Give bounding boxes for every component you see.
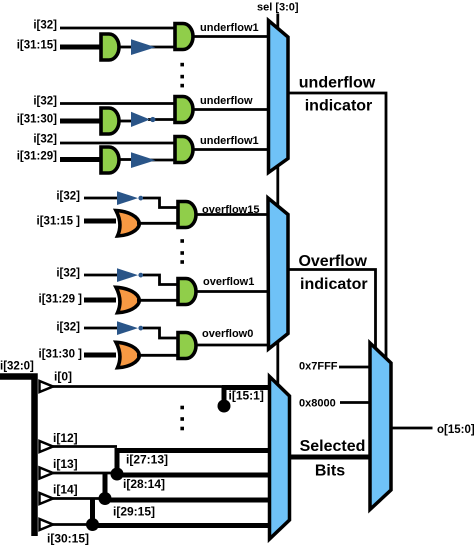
wire i[28:14] bus — [117, 473, 271, 478]
wire i[13] — [53, 472, 113, 475]
wire i[31:15] bus g1 — [60, 45, 103, 50]
wire i[31:30] bus g2 — [60, 119, 103, 124]
wire inverter-to-and g4 — [143, 198, 178, 208]
svg-text:underflow: underflow — [299, 75, 376, 92]
wire i[31:30] bus g6 — [84, 353, 116, 358]
wire i[32] g3 — [60, 142, 177, 145]
wire overflow0 out g6 — [196, 344, 269, 347]
and gate U1a — [101, 34, 119, 60]
svg-text:i[32:0]: i[32:0] — [0, 361, 34, 373]
wire i[30:15] bus — [92, 523, 271, 528]
svg-text:i[15:1]: i[15:1] — [229, 389, 264, 403]
buffer B3 — [131, 152, 156, 168]
svg-text:i[30:15]: i[30:15] — [47, 532, 89, 545]
wire vertical i[13]-to-junction2 — [103, 474, 108, 499]
junction dot 3 — [86, 518, 99, 531]
wire i[31:15] bus g4 — [84, 219, 116, 224]
wire vertical i[27:13]-to-junction1 — [115, 449, 120, 475]
mux U7 underflow — [269, 21, 289, 173]
svg-text:i[31:30]: i[31:30] — [17, 114, 57, 126]
wire stub to junction i[15:1] — [222, 387, 227, 402]
junction dot 2 — [99, 492, 112, 505]
wire i[30:15] thin — [53, 523, 90, 526]
wire i[14] — [53, 497, 101, 500]
and gate U3b — [175, 137, 193, 163]
wire i[29:15] bus — [104, 498, 271, 503]
svg-text:sel [3:0]: sel [3:0] — [257, 2, 299, 14]
wire i[15:1] bus — [222, 385, 271, 390]
wire buffer-to-and1b g1 — [150, 46, 176, 49]
wire i[32] g1 — [60, 27, 177, 30]
ellipsis dots overflow — [180, 239, 184, 264]
tap i[13] — [40, 468, 54, 479]
svg-text:underflow: underflow — [200, 95, 253, 107]
wire inverter-to-and g5 — [143, 275, 178, 285]
wire buffer-to-and2b g2 — [148, 118, 176, 121]
wire and2a-to-buffer g2 — [118, 120, 134, 123]
wire i[32:0] main bus — [0, 377, 35, 537]
svg-text:underflow1: underflow1 — [200, 135, 259, 147]
wire i[31:29] bus g3 — [60, 157, 103, 162]
svg-text:underflow1: underflow1 — [200, 22, 259, 34]
svg-text:i[32]: i[32] — [33, 96, 57, 108]
and gate U1b — [175, 24, 193, 50]
wire sel mux1-to-mux2 — [276, 162, 279, 206]
svg-text:i[28:14]: i[28:14] — [123, 477, 165, 491]
tap i[30:15] — [40, 519, 54, 530]
svg-text:i[27:13]: i[27:13] — [126, 453, 168, 467]
svg-text:0x8000: 0x8000 — [299, 397, 336, 409]
wire i[32] g6 — [84, 327, 120, 330]
wire underflow1 out g1 — [193, 35, 270, 38]
svg-text:indicator: indicator — [300, 276, 368, 293]
buffer B2 with bubble — [131, 112, 150, 127]
wire i[27:13] bus — [115, 448, 272, 453]
wire 0x8000 — [340, 401, 371, 404]
svg-text:i[31:29 ]: i[31:29 ] — [39, 294, 83, 306]
svg-text:i[31:15 ]: i[31:15 ] — [37, 216, 81, 228]
junction dot i[15:1] — [218, 400, 231, 413]
wire overflow-indicator — [288, 270, 376, 350]
inverter N6 — [117, 321, 138, 335]
tap i[12] — [40, 441, 54, 452]
ellipsis dots underflow — [180, 63, 184, 88]
svg-text:Selected: Selected — [300, 438, 366, 455]
svg-text:indicator: indicator — [305, 98, 373, 115]
svg-text:overflow0: overflow0 — [202, 328, 253, 340]
svg-text:i[14]: i[14] — [53, 483, 78, 497]
svg-text:i[0]: i[0] — [54, 370, 72, 384]
svg-text:Overflow: Overflow — [298, 253, 367, 270]
wire or-to-and g5 — [137, 299, 178, 302]
and gate U2b — [175, 97, 193, 123]
inverter N4 — [117, 191, 138, 205]
tap i[14] — [40, 493, 54, 504]
junction dot 1 — [111, 468, 124, 481]
wire overflow15 out g4 — [196, 213, 269, 216]
svg-text:i[32]: i[32] — [33, 134, 57, 146]
wire i[12] — [53, 445, 117, 448]
svg-text:i[13]: i[13] — [53, 457, 78, 471]
svg-text:overflow1: overflow1 — [203, 276, 254, 288]
ellipsis dots mux3 inputs — [180, 406, 184, 431]
wire o[15:0] — [391, 427, 433, 430]
svg-text:i[32]: i[32] — [56, 322, 80, 334]
wire vertical i[14]-to-junction3 — [90, 499, 95, 525]
mux U9 selected bits — [270, 377, 290, 540]
or gate O5 — [116, 287, 140, 312]
and gate U5 — [178, 279, 196, 305]
wire i[32] g2 — [60, 102, 177, 105]
and gate U4 — [178, 202, 196, 228]
svg-text:o[15:0]: o[15:0] — [437, 424, 474, 436]
svg-text:i[12]: i[12] — [53, 431, 78, 445]
tap i[0] — [40, 381, 54, 392]
wire sel mux2-to-mux3 — [276, 341, 279, 386]
wire underflow1 out g3 — [193, 148, 270, 151]
svg-text:i[31:30 ]: i[31:30 ] — [39, 349, 83, 361]
svg-text:i[32]: i[32] — [33, 20, 57, 32]
or gate O4 — [116, 211, 140, 236]
wire selected-bits bus — [289, 455, 371, 460]
and gate U2a — [101, 108, 119, 134]
wire i[0] — [53, 385, 271, 388]
svg-text:i[31:15]: i[31:15] — [17, 40, 57, 52]
wire or-to-and g6 — [137, 354, 178, 357]
svg-text:Bits: Bits — [315, 463, 345, 480]
and gate U6 — [178, 333, 196, 359]
wire and3a-to-buffer g3 — [118, 158, 134, 161]
wire overflow1 out g5 — [196, 290, 269, 293]
svg-text:overflow15: overflow15 — [202, 204, 259, 216]
or gate O6 — [116, 342, 140, 367]
wire inverter-to-and g6 — [143, 328, 178, 338]
wire i[32] g4 — [84, 197, 120, 200]
wire sel to mux1 — [276, 14, 279, 31]
wire underflow-indicator — [288, 93, 386, 359]
svg-text:0x7FFF: 0x7FFF — [299, 361, 338, 373]
inverter N5 — [117, 268, 138, 282]
wire and1a-to-buffer g1 — [118, 46, 134, 49]
wire or-to-and g4 — [137, 222, 178, 225]
svg-text:i[32]: i[32] — [56, 191, 80, 203]
mux U8 overflow — [268, 198, 288, 349]
mux U10 output — [370, 343, 391, 510]
svg-text:i[29:15]: i[29:15] — [113, 505, 155, 519]
wire underflow out g2 — [193, 108, 270, 111]
wire 0x7FFF — [339, 366, 371, 369]
and gate U3a — [101, 147, 119, 173]
svg-text:i[31:29]: i[31:29] — [17, 151, 57, 163]
wire i[32] g5 — [84, 274, 120, 277]
buffer B1 — [131, 39, 156, 55]
wire i[31:29] bus g5 — [84, 298, 116, 303]
svg-text:i[32]: i[32] — [56, 268, 80, 280]
wire buffer-to-and3b g3 — [150, 159, 176, 162]
